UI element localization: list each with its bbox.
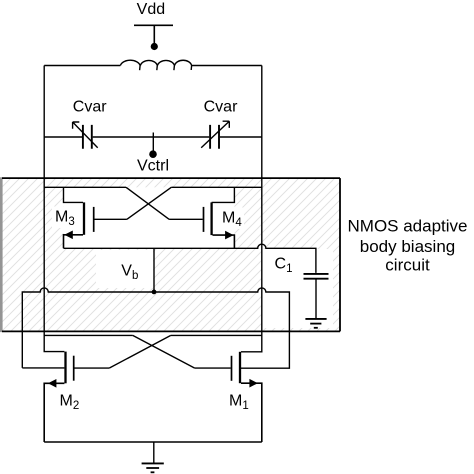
svg-text:circuit: circuit [385,256,430,275]
svg-text:NMOS adaptive: NMOS adaptive [348,217,468,236]
svg-text:Cvar: Cvar [204,98,238,115]
svg-text:Vdd: Vdd [137,1,165,18]
svg-text:Vctrl: Vctrl [137,158,169,175]
svg-text:body biasing: body biasing [360,237,455,256]
svg-text:Cvar: Cvar [73,98,107,115]
